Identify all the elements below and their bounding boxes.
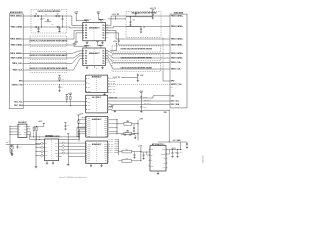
svg-text:VDD: VDD: [45, 155, 48, 157]
svg-text:DDC_SDA: DDC_SDA: [14, 104, 23, 107]
svg-text:C1: C1: [35, 14, 37, 16]
U9 pins right: [161, 149, 167, 169]
U3 pins left: [86, 78, 91, 93]
svg-text:IN5: IN5: [85, 63, 87, 65]
svg-text:O1+: O1+: [102, 53, 105, 55]
svg-text:USE RX DECOUPLING NETWORK SHOW: USE RX DECOUPLING NETWORK SHOWN: [121, 49, 153, 51]
svg-text:CLKN: CLKN: [88, 145, 91, 147]
U9 EN loop: [146, 152, 149, 155]
svg-text:DDC_SCL: DDC_SCL: [171, 101, 180, 103]
svg-text:TMDS_DATA1-: TMDS_DATA1-: [11, 44, 24, 47]
sense loop: [167, 150, 169, 154]
svg-text:IN2: IN2: [85, 30, 87, 32]
svg-text:0.1: 0.1: [20, 146, 22, 148]
svg-text:RSVD_NC: RSVD_NC: [109, 86, 115, 88]
svg-text:IN1N: IN1N: [88, 153, 91, 155]
wire TMDS_D2 pair from J1: [23, 16, 83, 28]
U1 pins right: [102, 24, 108, 39]
J2 pin labels: [171, 15, 184, 107]
power U6 top: [78, 134, 80, 142]
U4 pins left: [86, 98, 91, 111]
svg-text:O2+: O2+: [102, 55, 105, 57]
wire DDC_SDA from J1 to U4: [23, 105, 85, 107]
svg-text:1uF: 1uF: [180, 151, 182, 153]
svg-text:RX1P: RX1P: [88, 121, 91, 123]
svg-text:LOS_OUT: LOS_OUT: [109, 80, 115, 82]
capacitor C43: [143, 152, 145, 159]
svg-text:1uF: 1uF: [175, 151, 177, 153]
ground U1 left: [86, 41, 89, 44]
svg-text:TMDS_CLK-: TMDS_CLK-: [171, 69, 182, 71]
svg-text:+3.3 V: +3.3 V: [79, 113, 83, 115]
supply cap C6: [58, 84, 63, 91]
U5 left rail: [77, 113, 86, 137]
ferrite FB5: [118, 158, 141, 162]
choke L3: [73, 42, 91, 48]
decoupling rail C21 C22: [139, 91, 147, 112]
svg-text:TMDS_DATA1-: TMDS_DATA1-: [171, 44, 184, 47]
svg-text:EN: EN: [96, 67, 98, 69]
power flag in box: [126, 12, 153, 17]
svg-text:VDD: VDD: [88, 157, 91, 159]
resistor R1 shunt: [41, 16, 43, 27]
svg-text:TMDS_DATA0+: TMDS_DATA0+: [171, 52, 184, 55]
wire CEC to J2: [109, 96, 170, 98]
svg-text:GND: GND: [19, 134, 22, 136]
svg-text:DDC_SDA: DDC_SDA: [171, 103, 180, 106]
svg-text:FB2: FB2: [126, 121, 129, 123]
wire HPD from J1 to U3: [23, 80, 85, 82]
svg-text:GND: GND: [88, 91, 91, 93]
U6 pins right: [104, 143, 109, 163]
+1.8V rail right: [138, 118, 144, 140]
svg-text:+3.3 V: +3.3 V: [138, 145, 142, 147]
svg-text:RX2N: RX2N: [88, 127, 91, 129]
note band 2: [30, 52, 67, 60]
oscillator U7: [44, 139, 58, 161]
svg-text:WP: WP: [24, 128, 26, 130]
svg-text:IN0: IN0: [85, 50, 87, 52]
wire TMDS_D0 pair from J1: [23, 51, 83, 58]
svg-text:TP5: TP5: [106, 62, 108, 64]
svg-text:TP3: TP3: [106, 32, 108, 34]
capacitor C10: [129, 17, 135, 26]
svg-text:REF: REF: [88, 155, 91, 157]
svg-text:O2+: O2+: [102, 30, 105, 32]
pullup R10 R11: [33, 121, 45, 139]
svg-text:CLK+: CLK+: [55, 143, 58, 145]
+1.8V output: [167, 148, 181, 150]
jumper diamonds: [62, 142, 69, 154]
+3.3V_TX label: [110, 41, 120, 50]
svg-text:TMDS_DATA0-: TMDS_DATA0-: [11, 57, 24, 60]
svg-text:RX0P: RX0P: [88, 117, 91, 119]
U4 pins right: [108, 97, 109, 110]
svg-text:VDD3: VDD3: [104, 147, 107, 149]
U7 ground symbols: [46, 161, 54, 165]
svg-text:RX3N: RX3N: [88, 131, 91, 133]
svg-text:TMDS_DATA2+: TMDS_DATA2+: [171, 15, 184, 18]
svg-text:10 uF: 10 uF: [143, 107, 146, 109]
svg-text:REXT: REXT: [104, 123, 107, 125]
ground stub G2: [58, 27, 60, 32]
U2 pins left: [83, 50, 87, 65]
net label column: [108, 138, 119, 155]
svg-text:NC: NC: [45, 147, 47, 149]
svg-text:TMDS_DATA0+: TMDS_DATA0+: [10, 52, 23, 55]
svg-text:O0+: O0+: [102, 50, 105, 52]
EEPROM VCC cap C32: [64, 123, 69, 130]
svg-text:IN3: IN3: [85, 32, 87, 34]
mid rail to U6: [67, 134, 86, 166]
svg-text:GND2: GND2: [104, 151, 107, 153]
svg-text:GND: GND: [45, 151, 48, 153]
wire DDC_SCL from J1 to U4: [23, 101, 85, 103]
svg-text:IN3: IN3: [85, 58, 87, 60]
svg-text:VCC: VCC: [88, 87, 91, 89]
capacitor C12: [150, 8, 157, 19]
svg-text:0.1 uF: 0.1 uF: [143, 97, 147, 99]
svg-text:DDC_SCL: DDC_SCL: [14, 101, 23, 103]
svg-text:RX3P: RX3P: [88, 129, 91, 131]
dashed HPD line right: [109, 84, 170, 86]
svg-text:SCL: SCL: [105, 131, 108, 133]
U2 EN stub: [95, 66, 98, 70]
+3.3V rail regulator: [138, 145, 150, 161]
svg-text:FB: FB: [90, 45, 92, 47]
svg-text:+3.3 V: +3.3 V: [38, 121, 42, 123]
capacitor C1: [35, 15, 39, 17]
dashed box RX decoupling network: [126, 12, 161, 38]
svg-text:SUPPLY_5V0: SUPPLY_5V0: [171, 84, 182, 86]
svg-text:+5 V: +5 V: [171, 86, 174, 88]
EEPROM U8: [18, 124, 27, 137]
svg-text:RX2P: RX2P: [88, 125, 91, 127]
svg-text:SCL: SCL: [105, 159, 108, 161]
svg-text:GND: GND: [151, 165, 154, 167]
wire SDA up into U5: [39, 129, 85, 139]
svg-text:VCC: VCC: [88, 105, 91, 107]
ground U2 right: [101, 66, 104, 69]
svg-text:O3+: O3+: [102, 32, 105, 34]
capacitor C4: [56, 26, 59, 28]
svg-text:IN1: IN1: [85, 53, 87, 55]
ground U6 bottom: [90, 164, 103, 167]
svg-text:O5+: O5+: [102, 37, 105, 39]
U4 right labels: [109, 97, 117, 109]
svg-text:VCC: VCC: [24, 126, 27, 128]
transistor Q1 circuit: [6, 144, 41, 149]
U5 right bus: [109, 119, 118, 134]
svg-text:HPD_OUT: HPD_OUT: [109, 83, 115, 85]
svg-text:VSS: VSS: [88, 159, 90, 161]
svg-text:TMDS_DATA2-: TMDS_DATA2-: [11, 26, 24, 29]
coupling junction dots: [38, 16, 63, 28]
svg-text:OUT1: OUT1: [104, 155, 107, 157]
svg-text:FB5: FB5: [126, 158, 129, 160]
svg-text:VCC: VCC: [88, 133, 91, 135]
block U5 crosspoint: [86, 117, 108, 138]
ferrite FB3: [117, 131, 138, 135]
ferrite FB2: [117, 121, 138, 125]
U9 ground: [157, 171, 160, 175]
svg-text:O0+: O0+: [102, 25, 105, 27]
note band 1: [30, 36, 67, 46]
capacitor C20: [133, 124, 135, 132]
svg-text:PD: PD: [105, 135, 107, 137]
svg-text:FB: FB: [104, 19, 106, 21]
wire SUPPLY_5V dashed from J1: [23, 84, 85, 86]
svg-text:SCL: SCL: [88, 98, 91, 100]
U5 pins right: [104, 117, 109, 137]
wire SDA to J2: [109, 103, 170, 106]
svg-text:PD: PD: [88, 161, 90, 163]
svg-text:VSS: VSS: [56, 156, 59, 158]
U7 left rail: [35, 132, 38, 168]
svg-text:SUPPLY_5V0: SUPPLY_5V0: [12, 84, 23, 86]
svg-text:PDN: PDN: [164, 112, 167, 114]
U9 pins left: [149, 149, 154, 167]
svg-text:FB: FB: [90, 19, 92, 21]
U1 pins left: [83, 25, 87, 40]
U7 pins left: [36, 142, 48, 157]
svg-text:NC: NC: [163, 163, 165, 165]
capacitor C13 cluster: [113, 74, 144, 82]
svg-text:PDN: PDN: [109, 107, 112, 109]
svg-text:0.1: 0.1: [133, 20, 135, 22]
U8 left rail to ground: [10, 126, 13, 156]
capacitor C44: [171, 150, 177, 158]
svg-text:0.1: 0.1: [155, 13, 157, 15]
svg-text:C2: C2: [57, 14, 59, 16]
ground U2 left: [86, 66, 89, 69]
svg-text:VOUT: VOUT: [162, 149, 166, 151]
svg-text:IN0N: IN0N: [88, 149, 91, 151]
svg-text:RX0_SCL: RX0_SCL: [108, 141, 114, 143]
svg-text:+3.3 V_RX: +3.3 V_RX: [112, 14, 119, 16]
svg-text:HDCP KEYS: HDCP KEYS: [45, 135, 53, 137]
svg-text:NC: NC: [163, 158, 165, 160]
svg-text:IN+: IN+: [88, 78, 90, 80]
I2C junctions: [30, 132, 53, 140]
wire TMDS_D1 pair from J1: [23, 30, 83, 45]
svg-text:IN1P: IN1P: [88, 151, 91, 153]
svg-text:O3+: O3+: [102, 58, 105, 60]
svg-text:TP1: TP1: [106, 27, 108, 29]
svg-text:RX1N: RX1N: [88, 123, 91, 125]
coupling mid components: [35, 14, 58, 26]
capacitor C2: [56, 15, 60, 17]
svg-text:GND2: GND2: [104, 127, 107, 129]
ground U1 right: [101, 41, 104, 44]
svg-text:GND1: GND1: [104, 149, 107, 151]
block U6 retimer: [86, 141, 108, 164]
svg-text:OE: OE: [45, 143, 47, 145]
wire U1 out pair B: [105, 30, 170, 45]
svg-text:TMDS_DATA1+: TMDS_DATA1+: [10, 38, 23, 41]
wire U2 out pair A: [105, 51, 170, 58]
regulator U9: [150, 146, 166, 171]
svg-text:10 uF: 10 uF: [140, 75, 144, 77]
svg-text:O5+: O5+: [102, 63, 105, 65]
capacitor C40 C41: [121, 132, 136, 139]
svg-text:SENSE: SENSE: [161, 154, 165, 156]
HPD pullup R3: [58, 75, 64, 81]
U2 pins right: [102, 50, 108, 65]
svg-text:EN: EN: [151, 155, 153, 157]
svg-text:VCC1: VCC1: [104, 119, 107, 121]
svg-text:IN0: IN0: [85, 25, 87, 27]
power U4 top: [111, 106, 116, 112]
note band 6: [112, 63, 161, 71]
svg-text:GND: GND: [88, 135, 91, 137]
svg-text:HDMI SINK: HDMI SINK: [174, 12, 184, 14]
capacitor C31 + ground: [11, 149, 14, 154]
svg-text:USE RX COUPLING NETWORK: USE RX COUPLING NETWORK: [38, 11, 62, 13]
ground stub G1: [37, 27, 39, 32]
svg-text:IN0P: IN0P: [88, 147, 91, 149]
svg-text:TX_SCL: TX_SCL: [108, 150, 113, 152]
connector J1 HDMI source: [9, 14, 23, 109]
svg-text:OUT0: OUT0: [104, 153, 107, 155]
svg-text:+3.3 V: +3.3 V: [137, 12, 141, 14]
U7 pins right: [55, 143, 62, 158]
svg-text:RX0N: RX0N: [88, 119, 91, 121]
svg-text:HDMI SOURCE: HDMI SOURCE: [10, 12, 24, 14]
dashed box AC coupling network: [31, 10, 67, 33]
svg-text:TMDS_CLK+: TMDS_CLK+: [171, 62, 182, 64]
capacitor C42: [133, 152, 135, 159]
svg-text:TMDS_DATA1+: TMDS_DATA1+: [171, 38, 184, 41]
svg-text:0.1 0.1: 0.1 0.1: [125, 132, 129, 134]
svg-text:IN2: IN2: [85, 55, 87, 57]
wire TMDS_CLK pair from J1: [23, 56, 83, 70]
wire U1 out pair A: [105, 16, 170, 28]
svg-text:EE: EE: [105, 133, 107, 135]
capacitor C11: [140, 26, 145, 33]
svg-text:VDD1: VDD1: [104, 143, 107, 145]
svg-text:TP0: TP0: [106, 24, 108, 26]
svg-text:TMDS_DATA2-: TMDS_DATA2-: [171, 25, 184, 28]
pullup R5 R6: [66, 93, 72, 106]
svg-text:TP5: TP5: [106, 37, 108, 39]
svg-text:RX1_SCL: RX1_SCL: [108, 146, 114, 148]
svg-text:TMDS_DATA2+: TMDS_DATA2+: [10, 15, 23, 18]
resistor R2 shunt: [62, 16, 64, 27]
note band 4: [112, 46, 161, 52]
capacitor C3: [35, 26, 38, 28]
op IC U2 equalizer: [83, 48, 106, 66]
capacitor C30: [17, 144, 22, 149]
J1 pin labels: [10, 15, 23, 108]
svg-text:TMDS_DATA0-: TMDS_DATA0-: [171, 57, 184, 60]
svg-text:TMDS_CLK-: TMDS_CLK-: [12, 70, 23, 72]
choke L1: [74, 12, 91, 23]
svg-text:VIN: VIN: [151, 149, 153, 151]
connector J2 HDMI sink: [170, 14, 187, 108]
svg-text:DDC_SCL: DDC_SCL: [109, 92, 115, 94]
ferrite FB4: [118, 148, 141, 153]
svg-text:TMDS_CLK+: TMDS_CLK+: [12, 63, 23, 65]
block U4 buffer: [86, 95, 108, 113]
wire HPD vertical: [163, 38, 170, 82]
U8 pins right: [24, 126, 31, 137]
op IC U1 equalizer: [83, 22, 106, 40]
ground U3: [103, 93, 105, 96]
svg-text:10: 10: [143, 27, 145, 29]
svg-text:USE TX DECOUPLING NETWORK SHOW: USE TX DECOUPLING NETWORK SHOWN: [121, 57, 153, 59]
svg-text:RSVD_NC: RSVD_NC: [109, 77, 115, 79]
choke L2: [97, 12, 106, 23]
svg-text:SEL0: SEL0: [55, 149, 58, 151]
wire SCL to J2: [109, 100, 170, 102]
+3.3V_RX label: [108, 14, 126, 20]
svg-text:SS: SS: [151, 160, 153, 162]
U5 pins left: [86, 117, 91, 137]
note band 3: [30, 63, 67, 73]
svg-text:GND1: GND1: [104, 125, 107, 127]
svg-text:SEL1: SEL1: [55, 153, 58, 155]
svg-text:IN1: IN1: [85, 27, 87, 29]
U8 pins left: [10, 125, 22, 137]
wire U2 out pair B: [105, 56, 170, 69]
wire SCL up into U5: [39, 127, 85, 137]
svg-text:GND: GND: [88, 109, 91, 111]
svg-text:TP2: TP2: [106, 29, 108, 31]
svg-text:CLKP: CLKP: [88, 143, 91, 145]
svg-text:O1+: O1+: [102, 27, 105, 29]
svg-text:SCL: SCL: [24, 131, 27, 133]
U6 pins left: [86, 143, 91, 163]
svg-text:IN5: IN5: [85, 37, 87, 39]
choke L4: [96, 42, 103, 48]
wire in decoupling box: [126, 25, 141, 27]
svg-text:TP1: TP1: [106, 52, 108, 54]
svg-text:VCC2: VCC2: [104, 121, 107, 123]
svg-text:VDD2: VDD2: [104, 145, 107, 147]
capacitor C45: [176, 150, 182, 158]
svg-text:+1.8 V: +1.8 V: [139, 118, 143, 120]
block U3 mux: [86, 75, 108, 92]
note band 5: [112, 55, 161, 61]
U3 pins right: [108, 77, 109, 93]
svg-text:USE TX DECOUPLING NETWORK SHOW: USE TX DECOUPLING NETWORK SHOWN: [121, 67, 153, 69]
wire PDN: [109, 110, 188, 150]
U3 right labels: [109, 77, 115, 94]
svg-text:PD: PD: [105, 161, 107, 163]
